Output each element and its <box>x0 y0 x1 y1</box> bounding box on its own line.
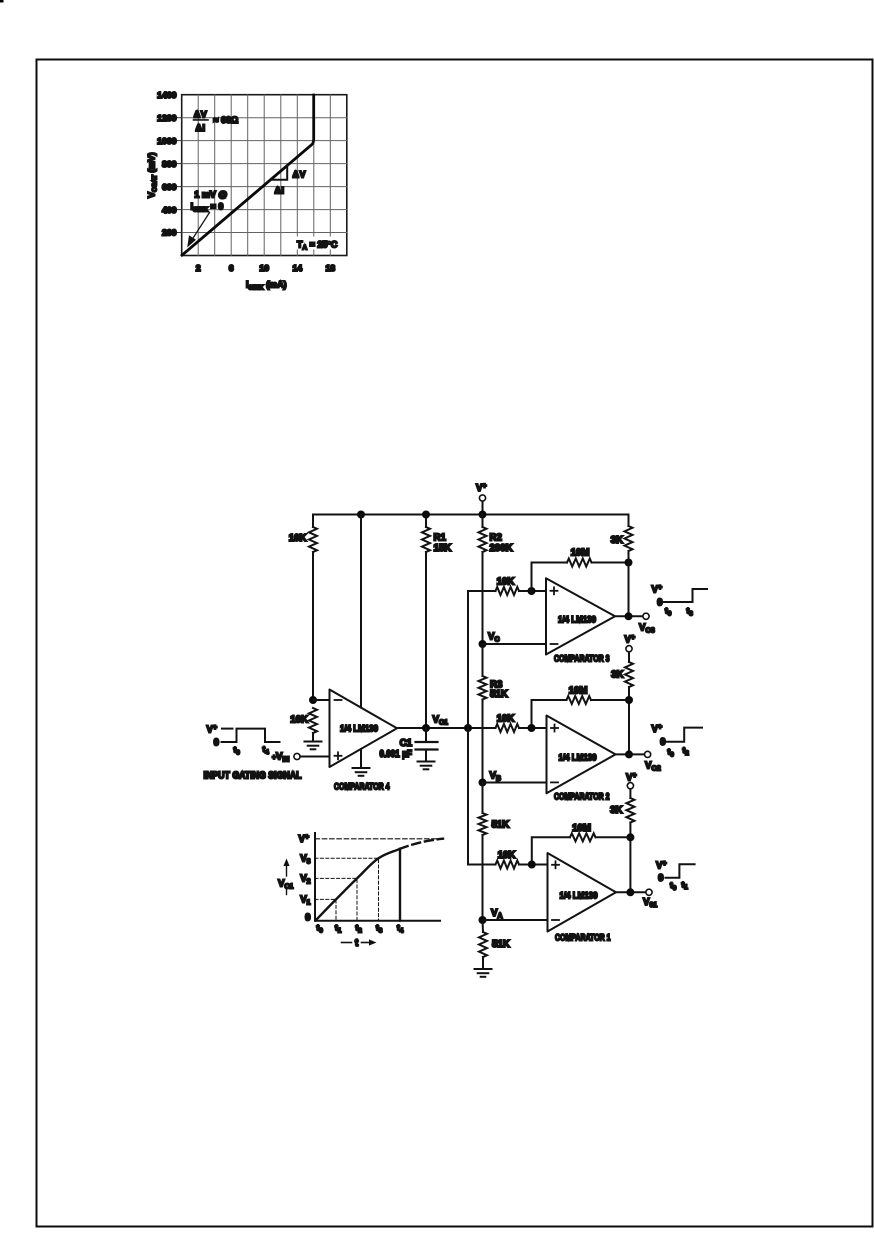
svg-text:10: 10 <box>259 263 269 273</box>
wire: 10M to output column (comp 1) <box>596 836 631 838</box>
wire: 10K to plus node (comp 3) <box>519 590 546 592</box>
wire: 3K to output node (comp 3) <box>628 551 630 616</box>
wire: 10K to plus input (comp 1) <box>519 864 548 866</box>
junction: comparator 4 inverting node <box>309 696 317 704</box>
svg-text:3K: 3K <box>611 670 623 681</box>
svg-text:0: 0 <box>657 597 662 608</box>
comparator 1 minus sign <box>552 919 559 921</box>
wire: comparator 4 supply pin <box>360 515 362 708</box>
junction: comparator 2 plus node <box>528 724 536 732</box>
wire: V+ to 3K (comp 2) <box>628 652 630 662</box>
graph slope step marker <box>272 166 288 180</box>
graph curve <box>182 95 314 255</box>
wire: 10K to ground <box>312 733 314 742</box>
wire: R3 to VB <box>482 700 484 783</box>
comparator 4 minus sign <box>335 699 342 701</box>
node VA junction <box>479 916 487 924</box>
wire: comparator 1 output <box>616 891 646 893</box>
svg-text:COMPARATOR 2: COMPARATOR 2 <box>554 791 610 801</box>
junction: VC1 at branch line <box>464 724 472 732</box>
resistor 10M (comparator 1) <box>570 833 596 841</box>
resistor 10K feedback (left) <box>309 527 317 552</box>
svg-text:1200: 1200 <box>157 113 176 123</box>
input waveform: gating pulse <box>222 729 280 742</box>
comparator 3 minus sign <box>551 643 558 645</box>
wire: rail to R2 <box>482 515 484 528</box>
resistor 3K (comparator 2) <box>625 662 633 687</box>
VC1 graph: V+ dashed level <box>315 838 437 840</box>
svg-text:600: 600 <box>162 182 177 192</box>
svg-text:10M: 10M <box>571 547 590 558</box>
VC1 graph: t axis arrow label <box>342 938 377 949</box>
wire: rail to R1 <box>425 515 427 528</box>
capacitor C1 <box>416 728 438 762</box>
VC1 graph: axes <box>315 833 440 921</box>
svg-text:800: 800 <box>162 159 177 169</box>
resistor 10K (comparator 1 input) <box>496 861 520 869</box>
output waveform 2: step <box>667 728 702 742</box>
resistor 10M (comparator 3) <box>567 559 592 567</box>
svg-text:0: 0 <box>660 737 665 748</box>
node VB junction <box>479 779 487 787</box>
svg-text:3K: 3K <box>611 535 623 546</box>
wire: comparator 3 output <box>615 615 643 617</box>
comparator 3 plus sign <box>551 587 558 594</box>
wire: branch to comparator 1 10K <box>468 864 496 866</box>
VC1 graph: VC1 axis label with arrow <box>278 859 293 895</box>
output waveform 3: step <box>664 589 707 602</box>
comparator 4 plus sign <box>335 752 342 759</box>
ground (divider chain) <box>475 969 492 977</box>
svg-text:0: 0 <box>658 873 663 884</box>
graph annotation arrow to origin <box>187 213 209 248</box>
terminal VO2 <box>645 751 651 757</box>
wire: VB to 51K <box>482 783 484 814</box>
svg-text:10K: 10K <box>497 576 515 587</box>
svg-text:0: 0 <box>305 913 310 924</box>
wire: 3K to output node (comp 2) <box>628 687 630 754</box>
resistor 10K to ground (lower left) <box>309 708 317 733</box>
svg-text:10M: 10M <box>572 823 591 834</box>
resistor R2 200K <box>479 527 487 552</box>
svg-text:14: 14 <box>292 263 302 273</box>
comparator 2 (1/4 LM139) <box>547 716 616 794</box>
graph gridlines <box>177 95 347 256</box>
wire: comparator 2 output <box>616 753 645 755</box>
wire: V+ terminal lead <box>482 501 484 514</box>
comparator 3 (1/4 LM139) <box>546 578 615 654</box>
wire: rail to 10K <box>312 515 314 528</box>
label C1 0.001 uF <box>380 738 413 760</box>
terminal +VIN <box>294 753 300 759</box>
wire: 3K to output node (comp 1) <box>629 823 631 893</box>
svg-text:INPUT GATING SIGNAL: INPUT GATING SIGNAL <box>204 771 302 782</box>
wire: plus node to 10M (comp 2) <box>532 700 567 728</box>
wire: V+ to 3K (comp 1) <box>629 789 631 798</box>
wire: plus node to 10M (comp 1) <box>532 837 570 864</box>
junction: comparator 1 plus node <box>528 861 536 869</box>
svg-text:10K: 10K <box>497 713 515 724</box>
graph annotation TA = 25C <box>294 237 340 252</box>
ground (C1) <box>418 762 435 770</box>
resistor 3K (comparator 1) <box>626 798 634 823</box>
svg-text:1/4 LM139: 1/4 LM139 <box>560 890 598 900</box>
wire: 10K down to inverting node <box>312 552 314 700</box>
wire: input terminal to comparator 4 plus input <box>300 756 329 758</box>
resistor R3 51K <box>479 676 487 700</box>
wire: 10K to plus input (comp 2) <box>519 727 547 729</box>
svg-text:10M: 10M <box>569 686 588 697</box>
junction: comparator 3 plus node <box>528 587 536 595</box>
svg-text:18: 18 <box>325 263 335 273</box>
svg-text:1/4 LM139: 1/4 LM139 <box>558 614 596 624</box>
VC1 graph: V1 dashed level and drop <box>315 899 336 920</box>
svg-text:ΔI: ΔI <box>196 123 206 133</box>
junction: comp 2 feedback/3K node <box>625 696 633 704</box>
svg-text:6: 6 <box>229 263 234 273</box>
svg-text:ΔI: ΔI <box>275 185 285 195</box>
svg-text:2: 2 <box>196 263 201 273</box>
junction: comparator 1 output node <box>626 888 634 896</box>
svg-text:ΔV: ΔV <box>194 109 207 119</box>
junction: rail at V+ / R2 <box>479 511 487 519</box>
resistor 3K (comparator 3) <box>625 526 633 551</box>
svg-text:1/4 LM139: 1/4 LM139 <box>559 752 597 762</box>
wire: R1 to VC1 node <box>425 552 427 728</box>
svg-text:200: 200 <box>162 228 177 238</box>
resistor 51K (bottom) <box>479 932 487 957</box>
resistor 51K (VB-VA) <box>479 813 487 835</box>
wire: R2 to node VC <box>482 552 484 644</box>
svg-text:C1: C1 <box>400 738 413 749</box>
svg-text:10K: 10K <box>289 533 307 544</box>
wire: node to comparator 4 minus input <box>313 699 330 701</box>
svg-text:51K: 51K <box>492 939 510 950</box>
svg-text:10K: 10K <box>498 850 516 861</box>
VC1 graph: dashed continuation <box>400 839 443 849</box>
wire: VB to comparator 2 minus input <box>483 782 547 784</box>
resistor 10K (comparator 2 input) <box>496 724 520 732</box>
ground (comparator 4) <box>353 768 370 776</box>
svg-text:≈ 60Ω: ≈ 60Ω <box>214 115 239 125</box>
graph x-axis tick labels <box>196 263 336 273</box>
terminal VO1 <box>646 889 652 895</box>
junction: rail at comparator 4 supply <box>357 511 365 519</box>
terminal V+ <box>479 495 485 501</box>
terminal V+ (comparator 2 pull-up) <box>626 646 632 652</box>
svg-text:15K: 15K <box>434 543 452 554</box>
wire: V+ supply rail <box>313 514 629 516</box>
VC1 graph: t4 drop line <box>399 849 401 921</box>
graph y-axis tick labels <box>157 90 176 238</box>
label R1 15K <box>434 533 452 554</box>
svg-text:COMPARATOR 3: COMPARATOR 3 <box>554 653 610 663</box>
wire: rail corner to 3K (comp 3) <box>628 515 630 527</box>
label R2 200K <box>490 533 513 554</box>
wire: VC to R3 <box>482 644 484 676</box>
comparator 2 plus sign <box>551 725 558 732</box>
VC1 graph: charging curve <box>316 849 401 921</box>
svg-text:51K: 51K <box>492 820 510 831</box>
wire: 10M to output column (comp 3) <box>592 562 629 564</box>
junction: rail at R1 <box>422 511 430 519</box>
graph annotation 1 mV at Isink = 0 <box>191 189 228 213</box>
input waveform: V+ level dash <box>222 728 233 730</box>
svg-text:COMPARATOR 1: COMPARATOR 1 <box>555 932 611 942</box>
junction: comparator 3 output node <box>625 612 633 620</box>
wire: comparator 4 output (VC1 bus) <box>397 727 496 729</box>
junction: comparator 2 output node <box>625 750 633 758</box>
terminal V+ (comparator 1 pull-up) <box>627 783 633 789</box>
junction: comp 1 feedback/3K node <box>626 833 634 841</box>
graph annotation dV/dI = 60 ohm <box>194 109 239 133</box>
svg-text:COMPARATOR 4: COMPARATOR 4 <box>334 781 390 791</box>
wire: VA to bottom 51K <box>482 920 485 932</box>
wire: 51K to ground <box>482 957 484 969</box>
resistor 10K (comparator 3 input) <box>496 587 520 595</box>
output waveform 1: step <box>666 864 695 878</box>
comparator 2 minus sign <box>551 781 558 783</box>
wire: VA to comparator 1 minus input <box>483 919 548 921</box>
wire: branch to comparator 3 10K <box>468 590 496 592</box>
wire: VC to comparator 3 minus input <box>483 643 547 645</box>
label R3 51K <box>490 679 508 700</box>
svg-text:ΔV: ΔV <box>293 169 306 179</box>
graph: output saturation voltage plot frame <box>182 95 347 256</box>
svg-text:3K: 3K <box>610 805 622 816</box>
svg-text:0: 0 <box>214 737 219 748</box>
svg-text:10K: 10K <box>290 715 308 726</box>
wire: plus node to 10M (comp 3) <box>532 563 568 592</box>
resistor 10M (comparator 2) <box>567 696 592 704</box>
svg-text:1 mV @: 1 mV @ <box>194 189 227 199</box>
svg-text:0.001 μF: 0.001 μF <box>380 749 413 760</box>
svg-text:1400: 1400 <box>157 90 176 100</box>
wire: VC1 branch vertical (to comparators 1 and 3) <box>467 591 469 865</box>
svg-text:200K: 200K <box>490 543 513 554</box>
comparator 1 plus sign <box>552 861 559 868</box>
terminal VO3 <box>643 613 649 619</box>
wire: 10M to output column (comp 2) <box>591 699 629 701</box>
wire: comparator 4 ground pin <box>360 749 362 768</box>
svg-text:1/4 LM139: 1/4 LM139 <box>340 724 378 734</box>
comparator 1 (1/4 LM139) <box>548 853 617 932</box>
svg-text:51K: 51K <box>490 689 508 700</box>
node VC junction <box>479 640 487 648</box>
svg-text:1000: 1000 <box>157 136 176 146</box>
ground (lower left 10K) <box>305 742 322 750</box>
VC1 graph: V2 dashed level and drop <box>315 878 357 920</box>
wire: 51K to VA <box>482 835 484 920</box>
VC1 graph: V3 dashed level and drop <box>315 858 379 920</box>
resistor R1 15K <box>422 527 430 552</box>
junction: comp 3 feedback/3K node <box>625 559 633 567</box>
svg-text:400: 400 <box>162 205 177 215</box>
junction: VC1 at R1 <box>422 724 430 732</box>
comparator 4 (1/4 LM139) <box>330 690 398 768</box>
